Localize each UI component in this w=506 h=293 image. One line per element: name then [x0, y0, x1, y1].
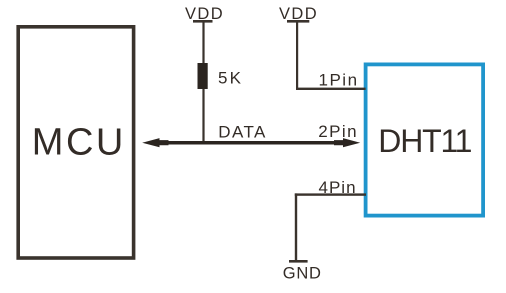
VDD power rail bar right	[287, 20, 309, 23]
resistor R1	[198, 63, 208, 89]
ground rail bar	[289, 260, 308, 263]
svg-text:4Pin: 4Pin	[319, 178, 357, 197]
DHT11 block U2	[366, 64, 484, 215]
1Pin pin label	[319, 71, 359, 90]
svg-text:GND: GND	[283, 264, 322, 282]
wire VDD left to resistor	[202, 22, 204, 64]
4Pin pin label	[319, 178, 357, 197]
wire resistor to DATA line	[202, 89, 204, 142]
wire VDD right down	[296, 22, 298, 89]
DATA bus wire	[155, 141, 345, 145]
GND net label	[283, 264, 322, 282]
wire 4Pin down to ground	[295, 193, 297, 260]
svg-text:1Pin: 1Pin	[319, 71, 359, 90]
svg-text:2Pin: 2Pin	[318, 122, 358, 141]
wire to 1Pin of DHT11	[296, 88, 366, 90]
VDD net label right	[279, 5, 318, 23]
MCU block U1	[18, 27, 133, 258]
arrowhead right toward DHT11	[334, 138, 360, 147]
wire 4Pin of DHT11 horizontal	[295, 193, 366, 195]
VDD net label left	[185, 5, 224, 23]
2Pin pin label	[318, 122, 358, 141]
MCU label	[32, 122, 126, 164]
svg-text:DHT11: DHT11	[378, 123, 471, 159]
arrowhead left toward MCU	[142, 138, 168, 147]
svg-text:5K: 5K	[218, 68, 243, 87]
DATA net label	[218, 122, 266, 141]
resistor value label 5K	[218, 68, 243, 87]
DHT11 label	[378, 123, 471, 159]
VDD power rail bar left	[193, 20, 213, 23]
svg-text:DATA: DATA	[218, 122, 266, 141]
svg-text:MCU: MCU	[32, 122, 126, 164]
